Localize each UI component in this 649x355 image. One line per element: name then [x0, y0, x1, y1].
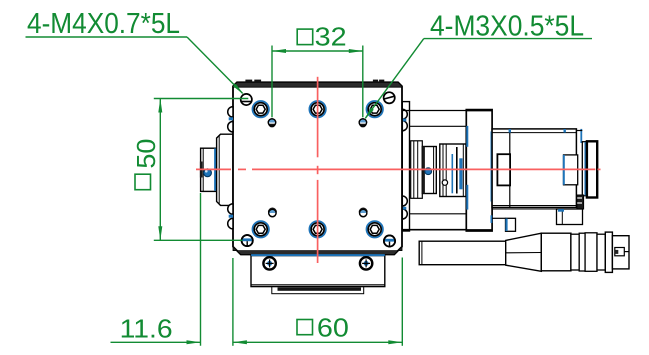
motor terminal tab	[581, 209, 583, 215]
base carriage	[251, 256, 385, 287]
M3 tapped hole at (363.2,213.0)	[360, 208, 367, 216]
coupling spacer	[411, 141, 423, 199]
bracket upright block	[466, 110, 492, 231]
connector pin detail	[615, 248, 629, 256]
M4 corner screw at (389.5,241.0)	[384, 235, 395, 246]
dim 32 text	[297, 22, 346, 52]
motor foot line	[492, 208, 556, 210]
motor bracket flange	[402, 102, 409, 231]
cable	[419, 241, 506, 265]
svg-text:11.6: 11.6	[120, 314, 173, 344]
svg-text:4-M4X0.7*5L: 4-M4X0.7*5L	[27, 8, 180, 40]
dim 60 extension lines	[233, 258, 402, 346]
M4 corner screw at (246.3,99.5)	[241, 94, 252, 105]
left knob cylinder	[200, 148, 217, 191]
svg-text:32: 32	[315, 22, 347, 52]
connector body	[541, 233, 571, 271]
svg-text:4-M3X0.5*5L: 4-M3X0.5*5L	[430, 11, 584, 43]
motor rear adapter	[576, 131, 586, 206]
motor body	[492, 129, 576, 208]
left edge screw bumps	[228, 107, 233, 229]
coupling drum B	[440, 144, 466, 197]
socket head cap screw at (317.6,109.2)	[309, 101, 325, 117]
dim 32 extension lines	[272, 46, 363, 118]
M3 tapped hole at (272.4,213.0)	[269, 208, 276, 216]
dim 60 text	[297, 312, 349, 342]
plate top edge band	[233, 82, 402, 87]
M4 corner screw at (389.2,97.8)	[384, 92, 395, 103]
dim 11.6 extension line	[200, 193, 202, 346]
socket head cap screw at (374.7,109.2)	[367, 101, 383, 117]
motor front boss	[497, 154, 510, 185]
phillips pan head screw at (366.1,263.4)	[360, 257, 372, 269]
motor rear boss	[564, 155, 578, 185]
motor rear foot	[557, 209, 583, 225]
socket head cap screw at (374.7,229.3)	[367, 221, 383, 237]
right edge screw bumps	[402, 109, 407, 219]
main stage plate outline	[233, 82, 402, 254]
svg-text:60: 60	[317, 312, 349, 342]
dim 11.6 dimension line	[111, 341, 201, 343]
dim 32 dimension line	[272, 50, 363, 52]
M3 tapped hole at (362.9,122.5)	[359, 119, 366, 128]
bottom tongue rail	[272, 287, 364, 294]
M3 tapped hole at (272.0,122.5)	[268, 119, 275, 128]
dim 50 text	[131, 139, 161, 190]
top edge set screw bumps	[245, 80, 384, 83]
dim 50 dimension line	[159, 99, 161, 241]
knob shaft blue dot	[204, 169, 212, 177]
M4 corner screw at (247.2,240.6)	[242, 235, 253, 246]
phillips pan head screw at (269.6,263.4)	[263, 257, 275, 269]
dim 60 dimension line	[233, 341, 402, 343]
socket head cap screw at (260.7,229.3)	[253, 221, 269, 237]
horizontal centerline	[196, 168, 601, 170]
blue line under plate	[251, 254, 385, 256]
left flange plate	[217, 134, 233, 205]
plate bottom edge band	[233, 247, 402, 255]
socket head cap screw at (317.6,229.3)	[309, 221, 325, 237]
motor rear cap	[587, 141, 597, 197]
coupling drum A	[422, 147, 436, 194]
strain relief cone	[506, 233, 542, 271]
svg-text:50: 50	[131, 139, 161, 169]
knob blue edge	[214, 148, 216, 190]
bracket lower step	[492, 218, 515, 231]
connector rings	[571, 232, 612, 272]
socket head cap screw at (260.7,109.2)	[253, 101, 269, 117]
coupling housing outline	[403, 111, 466, 230]
vertical centerline	[317, 77, 319, 263]
connector end body	[612, 236, 629, 269]
dim 50 extension lines	[154, 99, 249, 241]
